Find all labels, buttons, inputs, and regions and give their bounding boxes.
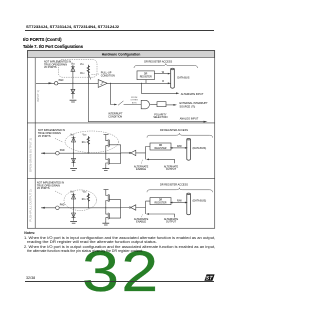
svg-text:VDD: VDD xyxy=(80,64,85,66)
pad circle xyxy=(55,82,58,85)
wire resistor branch xyxy=(88,136,89,154)
ground VSS xyxy=(70,100,77,102)
label VDD xyxy=(70,135,75,137)
wire polarity to external interrupt xyxy=(166,104,175,106)
arrowhead alternate output xyxy=(146,159,149,161)
DR register box xyxy=(150,143,171,150)
brace DR register access xyxy=(147,188,213,192)
svg-text:DR: DR xyxy=(159,200,163,202)
svg-text:SOURCE (ITi): SOURCE (ITi) xyxy=(180,106,196,109)
arrow into pad xyxy=(49,82,54,84)
svg-text:ENABLE: ENABLE xyxy=(136,168,146,171)
node: interrupt branch xyxy=(110,83,111,84)
svg-text:(DATA BUS): (DATA BUS) xyxy=(193,147,207,150)
label DR REGISTER xyxy=(155,145,167,150)
svg-text:VDD: VDD xyxy=(83,192,88,194)
svg-text:ANALOG INPUT: ANALOG INPUT xyxy=(180,117,199,120)
arrowhead interrupt xyxy=(114,104,117,106)
svg-text:CONDITION: CONDITION xyxy=(108,115,122,118)
dashed pointer xyxy=(55,191,62,195)
rotated row label PUSH-PULL OUTPUT 2) xyxy=(29,189,33,221)
svg-text:I/O PORTS: I/O PORTS xyxy=(38,135,51,138)
polarity selection box xyxy=(157,102,166,107)
wire diode to VDD xyxy=(73,136,75,153)
ground VSS xyxy=(70,221,77,223)
label ALTERNATE INPUT xyxy=(181,93,204,96)
node: protection diode branch xyxy=(72,83,73,84)
diode D1 to VDD xyxy=(71,67,75,72)
svg-text:OUTPUT: OUTPUT xyxy=(166,221,177,224)
footer rule xyxy=(25,280,214,283)
resistor RPU xyxy=(87,194,90,201)
svg-text:PUSH-PULL OUTPUT 2): PUSH-PULL OUTPUT 2) xyxy=(29,189,33,221)
pad circle xyxy=(56,206,60,210)
label ANALOG INPUT xyxy=(180,117,199,120)
label INTERRUPT CONDITION xyxy=(108,113,123,119)
svg-text:ALTERNATE INPUT: ALTERNATE INPUT xyxy=(181,93,204,96)
P-MOS transistor xyxy=(104,190,121,206)
schmitt trigger buffer xyxy=(98,80,107,88)
label DR REGISTER ACCESS xyxy=(144,60,172,63)
row border 2/3 xyxy=(27,177,214,179)
arrowhead alternate output xyxy=(146,213,149,215)
node P-MOS drain xyxy=(105,151,106,154)
svg-text:VDD: VDD xyxy=(70,192,75,194)
label EXTERNAL INTERRUPT SOURCE (ITi) xyxy=(180,102,209,109)
label PAD xyxy=(59,79,64,82)
diode D4 to VSS xyxy=(72,153,76,167)
svg-text:CONDITION: CONDITION xyxy=(101,74,115,77)
label DR REGISTER ACCESS xyxy=(160,184,188,187)
label PAD xyxy=(60,149,65,152)
P-MOS transistor (not implemented) xyxy=(104,135,121,151)
ST logo xyxy=(204,274,215,282)
svg-text:BITS: BITS xyxy=(132,102,137,104)
arrowhead out of pad xyxy=(41,152,45,154)
brace DR register access xyxy=(147,133,213,137)
svg-text:RPU: RPU xyxy=(82,199,87,201)
wire gate bus xyxy=(121,200,130,219)
label W xyxy=(162,71,165,74)
svg-text:PAD: PAD xyxy=(59,79,64,82)
data bus symbol xyxy=(171,68,175,88)
label VDD xyxy=(71,63,76,65)
N-MOS transistor xyxy=(106,208,121,221)
wire analog input branch xyxy=(88,83,205,121)
arrowhead analog input xyxy=(204,121,208,123)
ground N-MOS source xyxy=(102,166,109,170)
svg-text:PAD: PAD xyxy=(60,204,65,207)
label PAD xyxy=(60,204,65,207)
dashed pointer xyxy=(55,139,63,143)
arrowhead alternate input xyxy=(176,92,179,94)
dashed pointer to pull-up condition xyxy=(92,73,100,76)
svg-text:FROM: FROM xyxy=(131,97,137,99)
svg-text:DATA BUS: DATA BUS xyxy=(177,76,189,79)
label VDD xyxy=(80,64,85,66)
label DR REGISTER ACCESS xyxy=(160,129,188,132)
wire alternate output into mux xyxy=(148,159,175,163)
svg-text:VDD: VDD xyxy=(83,135,88,137)
pull-up switch xyxy=(88,73,91,83)
figure: I/O port hardware configuration schematic table xyxy=(0,0,240,310)
R/W arrow to data bus xyxy=(170,202,188,204)
resistor RPU xyxy=(87,137,90,144)
label VDD xyxy=(70,192,75,194)
footer page number 32/38 xyxy=(26,276,35,280)
svg-text:VDD: VDD xyxy=(70,135,75,137)
svg-text:RPU: RPU xyxy=(82,142,87,144)
svg-text:R/W: R/W xyxy=(177,145,182,148)
and gate xyxy=(141,100,149,109)
svg-text:INPUT 1): INPUT 1) xyxy=(36,90,40,102)
svg-text:DR: DR xyxy=(159,145,163,147)
svg-text:SELECTION: SELECTION xyxy=(153,116,167,119)
note text: not implemented in true open drain I/O ports xyxy=(37,181,64,190)
ground N-MOS source xyxy=(102,221,109,225)
arrowhead out of pad xyxy=(41,207,45,209)
svg-text:DR REGISTER ACCESS: DR REGISTER ACCESS xyxy=(144,60,172,63)
label R xyxy=(162,80,164,83)
wire resistor branch xyxy=(88,193,89,208)
wire gate to polarity box xyxy=(150,104,157,106)
node diode branch xyxy=(73,207,74,208)
svg-text:R/W: R/W xyxy=(177,200,182,203)
node: analog branch xyxy=(88,83,89,84)
note text: not implemented in true open drain I/O ports xyxy=(44,60,71,69)
node P-MOS drain xyxy=(105,205,106,208)
inverter (left pointing) xyxy=(129,150,136,155)
label R/W xyxy=(177,145,182,148)
wire diode to VDD xyxy=(72,65,74,84)
R/W arrow to data bus xyxy=(170,147,188,149)
label DR REGISTER xyxy=(155,200,167,205)
arrowhead external interrupt xyxy=(173,104,177,106)
notes block xyxy=(24,231,35,235)
data bus symbol xyxy=(187,193,191,215)
node at alternate branch xyxy=(141,83,142,84)
page header: device titles xyxy=(26,24,119,29)
svg-text:REGISTER: REGISTER xyxy=(155,148,167,150)
rotated row label OPEN-DRAIN OUTPUT 2) xyxy=(29,138,33,172)
label ALTERNATE ENABLE xyxy=(134,165,149,171)
svg-text:DR: DR xyxy=(144,73,148,75)
label DATA BUS xyxy=(177,76,189,79)
table header text xyxy=(102,53,141,57)
label FROM OTHER BITS xyxy=(131,97,139,104)
svg-text:RPU: RPU xyxy=(80,73,85,75)
svg-text:OPEN-DRAIN OUTPUT 2): OPEN-DRAIN OUTPUT 2) xyxy=(29,138,33,172)
svg-text:OTHER: OTHER xyxy=(131,100,139,102)
svg-text:DR REGISTER ACCESS: DR REGISTER ACCESS xyxy=(160,129,188,132)
data bus symbol xyxy=(187,139,191,161)
label ALTERNATE OUTPUT xyxy=(164,165,179,171)
svg-text:Hardware Configuration: Hardware Configuration xyxy=(102,53,141,57)
svg-text:DR REGISTER ACCESS: DR REGISTER ACCESS xyxy=(160,184,188,187)
diode D3 to VDD xyxy=(72,138,76,143)
dashed link to alternate enable xyxy=(141,214,142,217)
table outer border xyxy=(27,50,214,228)
wire alternate output into mux xyxy=(148,214,175,217)
label RPU xyxy=(82,199,87,201)
label POLARITY SELECTION xyxy=(153,113,167,119)
label PULL-UP CONDITION xyxy=(101,72,115,78)
wire diode to VDD xyxy=(73,193,75,208)
watermark page number 32 xyxy=(82,244,161,301)
dashed ellipse around not-implemented devices xyxy=(64,190,97,211)
svg-text:VDD: VDD xyxy=(71,63,76,65)
svg-text:REGISTER: REGISTER xyxy=(155,203,167,205)
svg-text:ENABLE: ENABLE xyxy=(136,221,146,224)
wire: pad line xyxy=(41,152,121,154)
dashed ellipse around not-implemented devices xyxy=(65,131,118,153)
wire inverter input junction xyxy=(136,201,150,214)
label ALTERNATE ENABLE xyxy=(134,218,149,224)
wire alternate input branch xyxy=(141,83,177,93)
label (DATA BUS) xyxy=(193,200,207,203)
label (DATA BUS) xyxy=(193,147,207,150)
svg-text:I/O PORTS: I/O PORTS xyxy=(37,187,50,190)
table caption xyxy=(23,44,83,49)
svg-text:PAD: PAD xyxy=(60,149,65,152)
arrowhead R to data bus xyxy=(168,82,171,84)
diode D2 to VSS xyxy=(71,83,75,99)
resistor RPU xyxy=(87,66,90,73)
wire resistor branch xyxy=(87,65,89,84)
section heading xyxy=(23,37,62,42)
rotated row label INPUT 1) xyxy=(36,90,40,102)
label RPU xyxy=(82,142,87,144)
diode D5 to VDD xyxy=(72,195,76,200)
inverter (left pointing) xyxy=(129,205,136,210)
note text: not implemented in true open drain I/O ports xyxy=(38,129,65,138)
svg-text:I/O PORTS: I/O PORTS xyxy=(44,66,57,69)
interrupt condition switch xyxy=(118,101,141,105)
diode D6 to VSS xyxy=(72,208,76,221)
wire inverter input junction xyxy=(136,147,150,160)
dashed link to alternate enable xyxy=(141,160,142,164)
label R/W xyxy=(177,200,182,203)
pad circle xyxy=(56,151,60,155)
svg-text:(DATA BUS): (DATA BUS) xyxy=(193,200,207,203)
DR register box xyxy=(150,198,171,205)
header rule xyxy=(25,29,214,32)
row border 1/2 xyxy=(27,122,214,124)
label ALTERNATE OUTPUT xyxy=(164,218,179,224)
label VDD xyxy=(83,135,88,137)
wire to interrupt switch xyxy=(111,83,115,104)
column divider xyxy=(34,58,36,229)
DR register box xyxy=(137,71,154,80)
label DR REGISTER xyxy=(140,73,152,78)
wire gate bus xyxy=(121,145,130,164)
brace DR register access xyxy=(134,64,198,68)
wire: input pad line xyxy=(36,82,171,84)
N-MOS transistor xyxy=(106,153,121,166)
label RPU xyxy=(80,73,85,75)
svg-text:OUTPUT: OUTPUT xyxy=(166,168,177,171)
svg-text:REGISTER: REGISTER xyxy=(140,77,152,79)
node diode branch xyxy=(73,153,74,154)
wire DR register to pad line xyxy=(145,80,147,84)
wire: pad line xyxy=(41,207,121,209)
ground VSS xyxy=(70,169,77,171)
write arrow W to data bus xyxy=(154,73,170,75)
svg-text:R: R xyxy=(162,80,164,83)
dashed box around pull-up devices xyxy=(59,60,98,78)
label VDD xyxy=(83,192,88,194)
table header band xyxy=(28,51,215,58)
